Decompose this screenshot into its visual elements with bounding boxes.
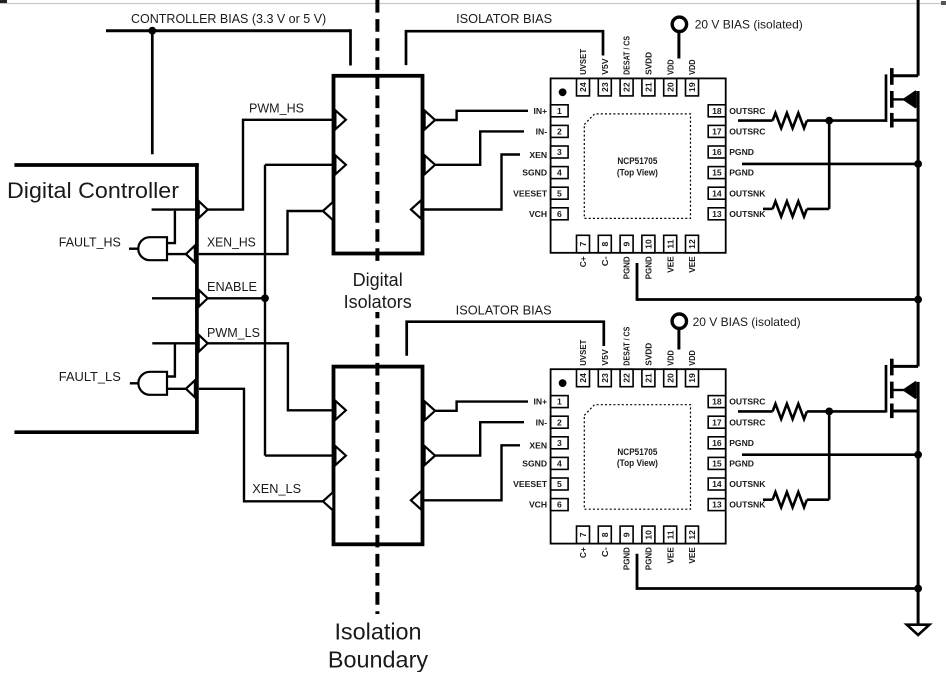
pin 1 index dot U3	[559, 88, 567, 96]
svg-text:12: 12	[687, 239, 697, 249]
wire ENABLE internal stub	[152, 297, 199, 299]
terminal 20 V BIAS 2	[672, 314, 686, 328]
wire resistor to gate Q2	[807, 410, 886, 413]
isolation boundary dashed line	[375, 0, 379, 614]
pin 8 U4	[598, 526, 611, 544]
wire IN- 2	[435, 422, 524, 455]
svg-text:18: 18	[712, 397, 722, 407]
pin 16 U3	[708, 146, 726, 158]
label Digital Isolators (white backing)	[340, 266, 415, 312]
wire OUTSRC/OUTSNK tie 1	[828, 121, 831, 209]
svg-text:XEN: XEN	[529, 150, 547, 160]
svg-text:VEE: VEE	[665, 547, 675, 564]
svg-text:23: 23	[600, 82, 610, 92]
svg-text:FAULT_HS: FAULT_HS	[59, 235, 121, 249]
svg-text:VEESET: VEESET	[513, 479, 548, 489]
svg-text:C-: C-	[600, 547, 610, 557]
svg-text:XEN_HS: XEN_HS	[207, 235, 256, 249]
svg-text:UVSET: UVSET	[578, 48, 588, 75]
wire controller-bias drop to Digital Controller	[151, 31, 154, 155]
svg-text:Boundary: Boundary	[328, 646, 428, 672]
port arrow XEN_HS input	[186, 246, 195, 263]
digital isolator block 2	[334, 367, 423, 545]
wire branch to AND gate U2 input	[167, 345, 175, 377]
isolator 2 output arrow to IN-	[425, 446, 436, 465]
gate driver U3 NCP51705 outline	[551, 78, 726, 252]
pin 11 U3	[664, 235, 677, 253]
wire OUTSNK 2	[763, 498, 773, 501]
svg-text:PGND: PGND	[622, 547, 632, 570]
wire FAULT_HS output stub	[129, 247, 138, 249]
svg-text:1: 1	[557, 106, 562, 116]
svg-text:ISOLATOR BIAS: ISOLATOR BIAS	[456, 12, 552, 26]
pin 18 U4	[708, 396, 726, 408]
isolator 2 input arrow PWM_LS	[335, 401, 346, 420]
isolator 1 input arrow ENABLE	[335, 155, 346, 174]
svg-text:PGND: PGND	[729, 438, 754, 448]
isolator 2 input arrow ENABLE	[335, 446, 346, 465]
svg-text:7: 7	[578, 241, 588, 246]
svg-text:V5V: V5V	[600, 349, 610, 366]
junction gate HS node	[825, 117, 833, 125]
svg-text:24: 24	[578, 373, 588, 383]
svg-text:24: 24	[578, 82, 588, 92]
wire Q2 source to ground	[917, 382, 920, 625]
svg-text:7: 7	[578, 532, 588, 537]
svg-text:SGND: SGND	[522, 168, 547, 178]
svg-text:PWM_HS: PWM_HS	[249, 102, 304, 116]
svg-text:18: 18	[712, 106, 722, 116]
svg-text:22: 22	[622, 373, 632, 383]
port arrow XEN_LS input	[186, 380, 195, 397]
wire XEN 1	[421, 155, 520, 210]
svg-text:17: 17	[712, 127, 722, 137]
svg-text:2: 2	[557, 417, 562, 427]
svg-text:17: 17	[712, 417, 722, 427]
isolator 2 input arrow from XEN	[411, 491, 422, 510]
svg-text:OUTSNK: OUTSNK	[729, 188, 766, 198]
pin 10 U3	[642, 235, 655, 253]
wire AND gate U2 lower input	[167, 388, 186, 390]
svg-text:IN-: IN-	[536, 417, 548, 427]
svg-text:10: 10	[644, 530, 654, 540]
pin 15 U4	[708, 457, 726, 469]
pin 16 U4	[708, 437, 726, 449]
pin 7 U3	[577, 235, 590, 253]
wire IN+ 2	[435, 402, 528, 411]
junction PGND2 bottom node	[914, 585, 922, 593]
wire PGND chip2 bottom	[637, 554, 918, 589]
pin 9 U3	[620, 235, 633, 253]
pin 23 U4	[598, 369, 611, 387]
svg-text:SVDD: SVDD	[644, 343, 654, 366]
isolator 1 input arrow PWM_HS	[335, 110, 346, 129]
svg-text:2: 2	[557, 127, 562, 137]
svg-text:PGND: PGND	[644, 256, 654, 279]
svg-text:VEE: VEE	[687, 547, 697, 564]
svg-text:14: 14	[712, 188, 722, 198]
svg-text:OUTSNK: OUTSNK	[729, 479, 766, 489]
pin 3 U4	[551, 437, 569, 449]
svg-text:10: 10	[644, 239, 654, 249]
pin 22 U4	[620, 369, 633, 387]
svg-text:21: 21	[644, 373, 654, 383]
junction PGND1 bottom node	[914, 296, 922, 304]
svg-text:Isolation: Isolation	[334, 618, 421, 644]
svg-text:VDD: VDD	[665, 350, 675, 366]
pin 1 U3	[551, 105, 569, 117]
svg-text:ISOLATOR BIAS: ISOLATOR BIAS	[456, 304, 552, 318]
svg-text:IN+: IN+	[533, 106, 547, 116]
junction PGND1-source node	[914, 160, 922, 168]
svg-text:PGND: PGND	[644, 547, 654, 570]
pin 6 U3	[551, 208, 569, 220]
pin 8 U3	[598, 235, 611, 253]
svg-text:20 V BIAS (isolated): 20 V BIAS (isolated)	[693, 315, 801, 329]
svg-text:6: 6	[557, 209, 562, 219]
pin 7 U4	[577, 526, 590, 544]
wire AND gate U1 lower input	[167, 253, 186, 255]
port arrow PWM_LS output	[199, 335, 208, 352]
svg-text:NCP51705: NCP51705	[617, 447, 657, 457]
wire OUTSRC 1 to gate resistor	[738, 119, 773, 122]
junction controller-bias node	[148, 27, 156, 35]
wire half-bridge node Q1 source to Q2 drain	[917, 91, 920, 366]
pin 5 U4	[551, 478, 569, 490]
junction PGND2-source node	[914, 451, 922, 459]
svg-text:11: 11	[665, 239, 675, 248]
pin 1 index dot U4	[559, 379, 567, 387]
svg-text:OUTSRC: OUTSRC	[729, 417, 765, 427]
wire PWM_LS to isolator 2	[208, 343, 332, 410]
pin 1 U4	[551, 396, 569, 408]
svg-text:Digital: Digital	[353, 270, 403, 290]
svg-text:ENABLE: ENABLE	[207, 280, 257, 294]
pin 24 U3	[577, 78, 590, 96]
wire XEN 2	[421, 445, 520, 500]
svg-text:14: 14	[712, 479, 722, 489]
svg-text:PGND: PGND	[622, 256, 632, 279]
pin 12 U3	[686, 235, 699, 253]
svg-text:19: 19	[687, 373, 697, 383]
svg-text:DESAT / CS: DESAT / CS	[622, 36, 632, 75]
isolator 1 output arrow to IN-	[425, 155, 436, 174]
svg-text:OUTSRC: OUTSRC	[729, 127, 765, 137]
svg-text:(Top View): (Top View)	[617, 167, 658, 177]
wire OUTSRC 2 to gate resistor	[738, 410, 773, 413]
wire ENABLE into isolator 1	[265, 164, 332, 166]
wire drain Q1 to top rail	[917, 0, 920, 76]
pin 17 U4	[708, 416, 726, 428]
wire PWM_HS to isolator 1	[208, 120, 332, 210]
isolator 2 output arrow XEN (left)	[323, 492, 334, 511]
svg-text:DESAT / CS: DESAT / CS	[622, 326, 632, 365]
svg-text:21: 21	[644, 82, 654, 92]
pin 2 U3	[551, 125, 569, 137]
pin 5 U3	[551, 187, 569, 199]
pin 20 U4	[664, 369, 677, 387]
svg-text:23: 23	[600, 373, 610, 383]
svg-text:20: 20	[665, 82, 675, 92]
junction ENABLE node	[261, 294, 269, 302]
svg-text:20: 20	[665, 373, 675, 383]
pin 6 U4	[551, 499, 569, 511]
svg-text:Digital Controller: Digital Controller	[7, 178, 180, 203]
wire ISOLATOR BIAS rail 1	[406, 31, 603, 65]
isolator 2 output arrow to IN+	[425, 401, 436, 420]
svg-text:CONTROLLER BIAS (3.3 V or 5 V): CONTROLLER BIAS (3.3 V or 5 V)	[131, 12, 326, 26]
svg-text:OUTSRC: OUTSRC	[729, 106, 765, 116]
svg-text:VDD: VDD	[665, 59, 675, 75]
svg-text:VEE: VEE	[665, 256, 675, 273]
svg-text:PGND: PGND	[729, 459, 754, 469]
svg-text:8: 8	[600, 241, 610, 246]
svg-text:OUTSNK: OUTSNK	[729, 500, 766, 510]
resistor sink HS	[773, 201, 807, 216]
wire ISOLATOR BIAS rail 2	[407, 322, 604, 356]
wire OUTSRC/OUTSNK tie 2	[828, 411, 831, 499]
svg-text:SGND: SGND	[522, 459, 547, 469]
svg-text:VEESET: VEESET	[513, 188, 548, 198]
svg-text:9: 9	[622, 532, 632, 537]
svg-text:VCH: VCH	[529, 209, 547, 219]
wire XEN_LS from isolator 2	[199, 389, 323, 502]
pin 14 U3	[708, 187, 726, 199]
pin 9 U4	[620, 526, 633, 544]
svg-text:16: 16	[712, 147, 722, 157]
isolator 1 input arrow from XEN	[411, 200, 422, 219]
wire ENABLE into isolator 2	[265, 454, 332, 456]
wire resistor to gate Q1	[807, 119, 886, 122]
svg-text:PGND: PGND	[729, 147, 754, 157]
pin 19 U3	[686, 78, 699, 96]
wire PGND 2 to source bus	[742, 453, 918, 456]
svg-text:FAULT_LS: FAULT_LS	[59, 370, 121, 384]
wire CONTROLLER BIAS rail	[106, 29, 351, 32]
svg-text:Isolators: Isolators	[344, 292, 412, 312]
pin 12 U4	[686, 526, 699, 544]
digital isolator block 1	[334, 76, 423, 254]
pin 11 U4	[664, 526, 677, 544]
svg-text:C-: C-	[600, 256, 610, 266]
wire ENABLE vertical to both isolators	[264, 165, 266, 456]
wire 20V bias 1 to VDD	[677, 32, 680, 59]
svg-text:OUTSNK: OUTSNK	[729, 209, 766, 219]
svg-text:XEN: XEN	[529, 441, 547, 451]
transistor Q2 (low side MOSFET)	[886, 359, 918, 418]
isolator 1 output arrow XEN (left)	[323, 202, 334, 221]
pin 4 U3	[551, 167, 569, 179]
svg-text:SVDD: SVDD	[644, 52, 654, 75]
resistor gate LS	[773, 404, 807, 419]
pin 4 U4	[551, 457, 569, 469]
svg-text:C+: C+	[578, 256, 588, 267]
resistor sink LS	[773, 492, 807, 507]
pin 18 U3	[708, 105, 726, 117]
wire PGND chip1 bottom	[637, 263, 918, 300]
svg-text:IN+: IN+	[533, 397, 547, 407]
wire FAULT_LS output stub	[130, 382, 139, 384]
pin 13 U3	[708, 208, 726, 220]
resistor gate HS	[773, 113, 807, 128]
pin 21 U3	[642, 78, 655, 96]
AND gate U1 (FAULT_HS)	[138, 237, 167, 260]
pin 21 U4	[642, 369, 655, 387]
svg-text:3: 3	[557, 438, 562, 448]
svg-text:22: 22	[622, 82, 632, 92]
svg-text:16: 16	[712, 438, 722, 448]
Digital Controller box	[14, 163, 198, 434]
svg-text:NCP51705: NCP51705	[617, 156, 657, 166]
gate driver U4 NCP51705 outline	[551, 369, 726, 543]
svg-text:4: 4	[557, 459, 562, 469]
pin 19 U4	[686, 369, 699, 387]
svg-text:PGND: PGND	[729, 168, 754, 178]
inner dashed body U3	[584, 114, 690, 218]
port arrow PWM_HS output	[199, 201, 208, 218]
svg-text:XEN_LS: XEN_LS	[252, 482, 301, 496]
svg-text:IN-: IN-	[536, 127, 548, 137]
pin 24 U4	[577, 369, 590, 387]
svg-text:1: 1	[557, 397, 562, 407]
svg-text:5: 5	[557, 188, 562, 198]
ground symbol	[907, 625, 930, 635]
svg-text:6: 6	[557, 500, 562, 510]
pin 20 U3	[664, 78, 677, 96]
svg-text:V5V: V5V	[600, 58, 610, 75]
svg-text:4: 4	[557, 168, 562, 178]
svg-text:20 V BIAS (isolated): 20 V BIAS (isolated)	[695, 18, 803, 32]
svg-text:12: 12	[687, 530, 697, 540]
pin 2 U4	[551, 416, 569, 428]
svg-text:13: 13	[712, 209, 722, 219]
wire XEN_HS from isolator 1	[199, 211, 323, 254]
port arrow ENABLE output	[199, 290, 208, 307]
svg-text:13: 13	[712, 500, 722, 510]
svg-text:VDD: VDD	[687, 59, 697, 75]
pin 3 U3	[551, 146, 569, 158]
wire IN- 1	[435, 131, 524, 164]
svg-text:15: 15	[712, 459, 722, 469]
svg-text:PWM_LS: PWM_LS	[207, 326, 260, 340]
pin 23 U3	[598, 78, 611, 96]
pin 10 U4	[642, 526, 655, 544]
pin 22 U3	[620, 78, 633, 96]
wire ENABLE to junction	[208, 297, 265, 299]
wire 20V bias 2 to VDD	[677, 328, 680, 349]
svg-text:VEE: VEE	[687, 256, 697, 273]
pin 14 U4	[708, 478, 726, 490]
transistor Q1 (high side MOSFET)	[886, 68, 918, 127]
svg-text:UVSET: UVSET	[578, 339, 588, 366]
svg-text:5: 5	[557, 479, 562, 489]
wire branch to AND gate U1 input	[167, 211, 175, 243]
svg-text:VDD: VDD	[687, 350, 697, 366]
junction gate LS node	[825, 408, 833, 416]
svg-text:OUTSRC: OUTSRC	[729, 397, 765, 407]
wire PGND 1 to source bus	[742, 163, 918, 166]
svg-text:3: 3	[557, 147, 562, 157]
wire OUTSNK 1	[763, 208, 773, 211]
svg-text:VCH: VCH	[529, 500, 547, 510]
isolator 1 output arrow to IN+	[425, 111, 436, 130]
pin 13 U4	[708, 499, 726, 511]
pin 17 U3	[708, 125, 726, 137]
svg-text:11: 11	[665, 530, 675, 539]
svg-text:(Top View): (Top View)	[617, 458, 658, 468]
AND gate U2 (FAULT_LS)	[138, 372, 167, 395]
pin 15 U3	[708, 167, 726, 179]
svg-text:19: 19	[687, 82, 697, 92]
svg-text:C+: C+	[578, 547, 588, 558]
svg-text:8: 8	[600, 532, 610, 537]
svg-text:9: 9	[622, 241, 632, 246]
wire IN+ 1	[435, 111, 528, 120]
wire PWM_HS internal stub	[152, 208, 199, 210]
inner dashed body U4	[584, 405, 690, 510]
wire controller-bias drop to isolator 1	[349, 29, 352, 65]
label Isolation Boundary (white backing)	[325, 617, 431, 672]
terminal 20 V BIAS 1	[672, 17, 686, 31]
wire PWM_LS internal stub	[152, 342, 199, 344]
svg-text:15: 15	[712, 168, 722, 178]
